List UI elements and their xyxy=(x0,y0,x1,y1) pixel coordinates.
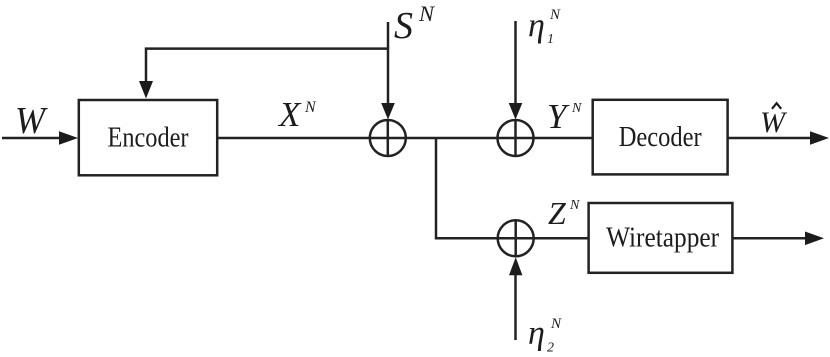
wire branch down to wiretap path xyxy=(436,138,589,238)
label X^N xyxy=(277,95,317,134)
svg-text:Y: Y xyxy=(547,97,570,136)
adder node 1 (S^N + X^N) xyxy=(370,120,406,156)
wire decoder output xyxy=(728,137,812,140)
svg-text:S: S xyxy=(394,5,413,47)
arrowhead S^N into adder 1 xyxy=(381,103,395,120)
block Decoder box xyxy=(593,100,728,175)
arrowhead W into encoder xyxy=(59,131,78,145)
svg-text:N: N xyxy=(550,316,562,332)
label Z^N xyxy=(548,195,580,231)
arrowhead feedback into encoder top xyxy=(139,81,153,99)
svg-text:N: N xyxy=(549,7,561,23)
block Wiretapper box xyxy=(589,203,733,273)
svg-text:N: N xyxy=(304,99,317,116)
wire feedback from S to encoder xyxy=(146,49,388,83)
adder node 3 (eta2 + branch) xyxy=(498,220,534,256)
svg-text:Wiretapper: Wiretapper xyxy=(606,222,720,253)
svg-text:2: 2 xyxy=(547,341,554,356)
arrowhead decoder output xyxy=(810,131,829,145)
block Encoder box xyxy=(79,100,217,175)
svg-text:N: N xyxy=(569,198,580,213)
svg-text:N: N xyxy=(571,101,582,116)
wire eta2 vertical xyxy=(514,272,517,340)
svg-text:Decoder: Decoder xyxy=(619,122,703,153)
wire wiretapper output xyxy=(732,237,807,240)
svg-text:N: N xyxy=(418,1,435,26)
label S^N xyxy=(394,1,435,47)
arrowhead eta1 into adder 2 xyxy=(509,103,523,120)
wire main channel X to decoder xyxy=(217,137,593,140)
wire W input xyxy=(2,137,61,140)
svg-text:1: 1 xyxy=(547,32,554,47)
adder node 2 (eta1 + channel) xyxy=(498,120,534,156)
arrowhead wiretapper output xyxy=(805,232,824,246)
wire S^N vertical xyxy=(387,22,390,105)
svg-text:η: η xyxy=(528,8,545,45)
label W-hat (decoded message) xyxy=(760,103,788,139)
label eta2^N xyxy=(528,315,562,356)
label Y^N xyxy=(547,97,582,136)
arrowhead eta2 into adder 3 xyxy=(509,257,522,275)
wire eta1 vertical xyxy=(514,21,517,105)
svg-text:W: W xyxy=(760,106,788,139)
svg-text:W: W xyxy=(15,100,48,142)
svg-text:η: η xyxy=(528,315,545,352)
svg-text:Encoder: Encoder xyxy=(108,123,190,154)
svg-text:Z: Z xyxy=(548,195,567,231)
svg-text:X: X xyxy=(277,95,302,134)
label eta1^N xyxy=(528,7,561,47)
